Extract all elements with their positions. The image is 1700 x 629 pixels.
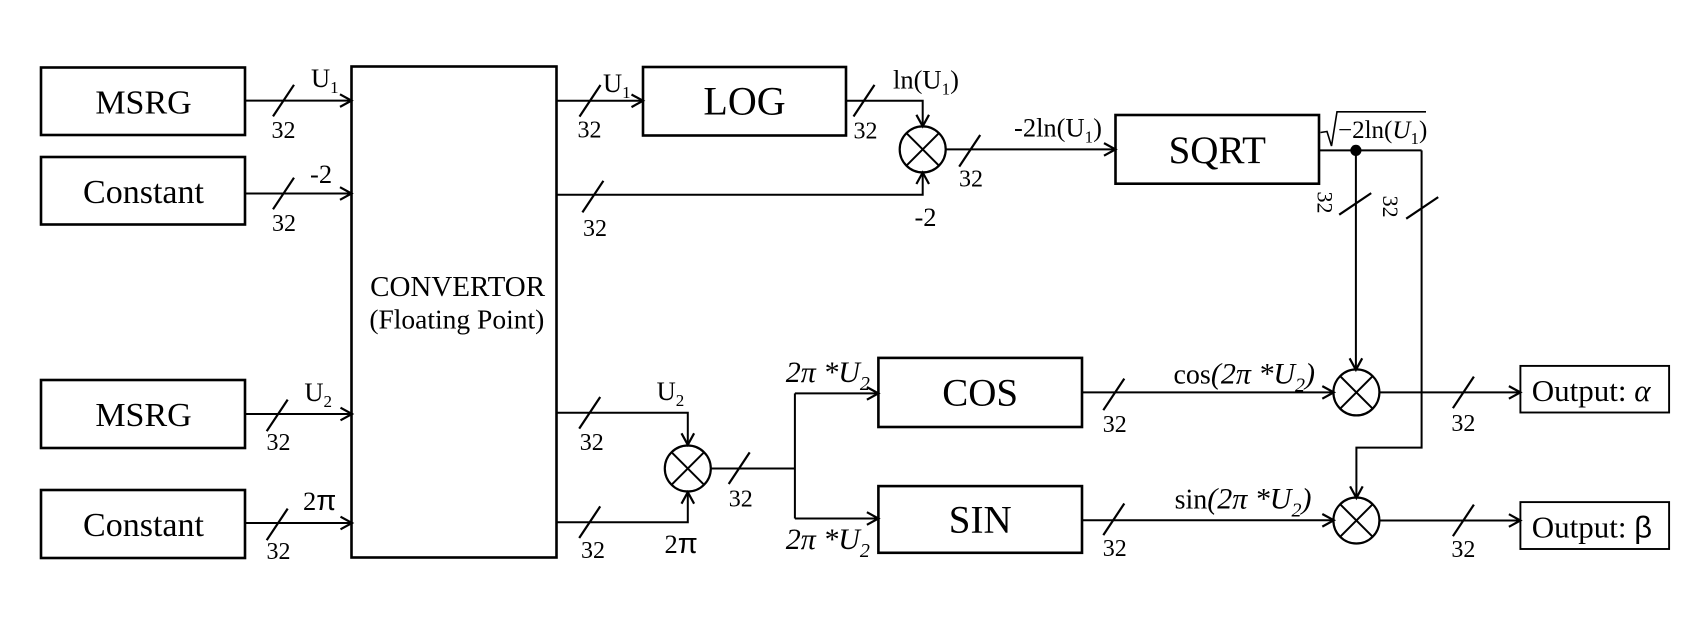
svg-text:MSRG: MSRG [95, 84, 191, 121]
svg-text:-2ln(U1): -2ln(U1) [1014, 113, 1102, 147]
svg-text:-2: -2 [914, 202, 936, 232]
svg-text:COS: COS [942, 372, 1018, 415]
svg-text:Output: β: Output: β [1532, 509, 1652, 544]
svg-text:SQRT: SQRT [1169, 129, 1267, 172]
svg-text:Constant: Constant [83, 507, 204, 544]
svg-text:LOG: LOG [703, 79, 785, 124]
svg-text:32: 32 [267, 539, 291, 565]
svg-text:U1: U1 [603, 68, 631, 102]
svg-text:−2ln(U1): −2ln(U1) [1338, 117, 1427, 148]
svg-text:U2: U2 [657, 376, 685, 410]
svg-text:32: 32 [272, 118, 296, 144]
svg-text:32: 32 [578, 118, 602, 144]
svg-text:32: 32 [267, 430, 291, 456]
svg-text:cos(2π *U2): cos(2π *U2) [1174, 358, 1316, 397]
svg-text:32: 32 [583, 216, 607, 242]
svg-text:2π: 2π [665, 528, 698, 560]
svg-text:Constant: Constant [83, 174, 204, 211]
svg-text:2π *U2: 2π *U2 [786, 523, 870, 562]
svg-text:32: 32 [580, 430, 604, 456]
svg-text:ln(U1): ln(U1) [893, 65, 959, 99]
svg-text:32: 32 [272, 211, 296, 237]
svg-text:sin(2π *U2): sin(2π *U2) [1175, 483, 1312, 522]
svg-text:(Floating Point): (Floating Point) [369, 304, 544, 335]
svg-text:32: 32 [1451, 537, 1475, 563]
svg-text:SIN: SIN [949, 499, 1012, 542]
svg-text:MSRG: MSRG [95, 397, 191, 434]
svg-text:32: 32 [1451, 411, 1475, 437]
svg-text:U1: U1 [311, 63, 339, 97]
svg-text:CONVERTOR: CONVERTOR [370, 271, 546, 303]
svg-text:-2: -2 [310, 159, 332, 189]
svg-text:2π *U2: 2π *U2 [786, 356, 870, 395]
svg-text:32: 32 [959, 167, 983, 193]
svg-text:Output: α: Output: α [1532, 373, 1651, 408]
svg-text:2π: 2π [303, 485, 336, 517]
svg-text:U2: U2 [304, 377, 332, 411]
svg-text:32: 32 [581, 538, 605, 564]
svg-text:32: 32 [1103, 536, 1127, 562]
svg-text:32: 32 [1103, 412, 1127, 438]
svg-text:32: 32 [1378, 196, 1403, 218]
svg-text:32: 32 [854, 119, 878, 145]
svg-text:32: 32 [729, 487, 753, 513]
svg-text:32: 32 [1313, 192, 1338, 214]
